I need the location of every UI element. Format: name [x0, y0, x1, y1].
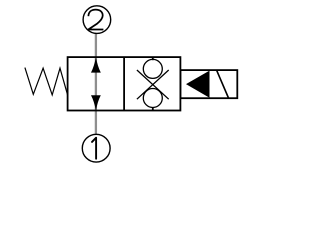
up arrowhead (open flow path)	[91, 57, 101, 72]
label 1	[92, 138, 96, 159]
blocked position: top ball	[143, 59, 162, 78]
solenoid coil box	[180, 70, 237, 98]
wire through left envelope (grey shaft)	[95, 57, 97, 110]
spring	[25, 68, 68, 95]
node 1 (port circle)	[82, 134, 110, 162]
wire port2 to valve (grey)	[95, 33, 97, 57]
down arrowhead (open flow path)	[91, 95, 101, 110]
solenoid slash	[217, 70, 229, 98]
node 2 (port circle)	[83, 6, 111, 34]
valve envelope (two-position boxes)	[68, 57, 181, 110]
blocked position: top seat stub	[152, 57, 154, 60]
seat cross line B	[137, 70, 169, 99]
seat cross line A	[137, 70, 169, 99]
solenoid actuator triangle	[186, 71, 210, 98]
label 2	[88, 10, 103, 30]
wire valve to port1 (grey)	[95, 111, 97, 135]
blocked position: bottom seat stub	[152, 107, 154, 111]
blocked position: bottom ball	[143, 89, 162, 108]
